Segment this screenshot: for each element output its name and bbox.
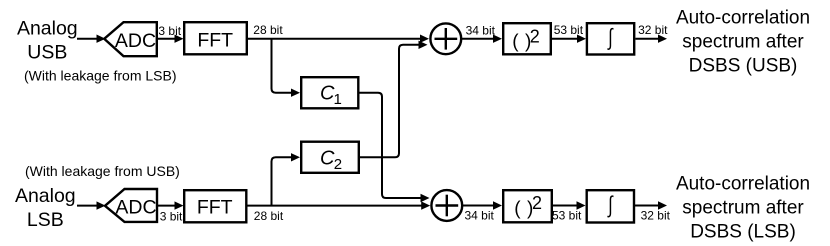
svg-text:FFT: FFT (197, 30, 233, 52)
svg-text:53 bit: 53 bit (552, 208, 582, 222)
wire: C2 output up to adder (USB) (360, 41, 428, 158)
svg-text:USB: USB (27, 41, 67, 63)
svg-text:2: 2 (532, 193, 542, 213)
integrator (LSB) (587, 190, 634, 222)
wire: Analog LSB to ADC (LSB) (77, 201, 106, 209)
integrator (USB) (587, 23, 634, 54)
svg-text:FFT: FFT (197, 197, 233, 219)
svg-text:spectrum after: spectrum after (682, 32, 804, 53)
svg-text:Analog: Analog (15, 185, 76, 207)
svg-text:(With leakage from USB): (With leakage from USB) (25, 163, 180, 179)
wire: squarer to integrator (USB) (552, 35, 586, 43)
svg-text:3 bit: 3 bit (158, 24, 181, 38)
svg-text:Analog: Analog (17, 17, 78, 39)
svg-text:(With leakage from LSB): (With leakage from LSB) (24, 68, 177, 84)
svg-text:Auto-correlation: Auto-correlation (676, 173, 810, 194)
svg-text:2: 2 (334, 156, 342, 173)
svg-text:32 bit: 32 bit (641, 208, 671, 222)
svg-text:32 bit: 32 bit (638, 23, 668, 37)
svg-text:(: ( (514, 198, 521, 219)
svg-text:ADC: ADC (115, 197, 156, 219)
wire: C1 output down to adder (LSB) (360, 93, 430, 203)
adder (LSB) (431, 190, 462, 221)
svg-text:DSBS (LSB): DSBS (LSB) (690, 221, 796, 242)
FFT (USB) (184, 22, 247, 54)
svg-text:DSBS (USB): DSBS (USB) (689, 56, 798, 77)
wire: integrator to output (USB) (635, 35, 667, 43)
svg-text:LSB: LSB (27, 209, 64, 231)
wire: FFT (USB) branch down to C1 (272, 39, 301, 97)
input label: Analog LSB (15, 185, 76, 231)
svg-text:spectrum after: spectrum after (682, 197, 804, 218)
output label: Auto-correlation spectrum after DSBS (LSB) (676, 173, 810, 242)
wire: FFT (LSB) branch up to C2 (272, 153, 301, 206)
FFT (LSB) (184, 190, 246, 222)
svg-text:28 bit: 28 bit (254, 209, 284, 223)
squarer (USB) (503, 23, 551, 54)
svg-text:3 bit: 3 bit (160, 209, 183, 223)
wire: Analog USB to ADC (USB) (77, 35, 106, 43)
svg-text:1: 1 (334, 91, 342, 108)
output label: Auto-correlation spectrum after DSBS (USB) (676, 8, 810, 77)
wire: adder to squarer (LSB) (463, 201, 502, 209)
svg-text:ADC: ADC (115, 30, 156, 52)
svg-text:Auto-correlation: Auto-correlation (676, 8, 810, 29)
ADC (LSB) (105, 189, 157, 222)
input label: Analog USB (17, 17, 78, 63)
svg-text:28 bit: 28 bit (253, 23, 283, 37)
C1 (301, 77, 358, 108)
wire: squarer to integrator (LSB) (553, 201, 586, 209)
adder (USB) (430, 23, 461, 54)
svg-text:C: C (320, 147, 335, 169)
svg-text:53 bit: 53 bit (554, 23, 584, 37)
wire: FFT (USB) to adder (USB) (248, 35, 430, 43)
C2 (301, 142, 359, 173)
svg-text:2: 2 (530, 26, 540, 46)
wire: ADC to FFT (USB) (158, 35, 184, 43)
svg-text:34 bit: 34 bit (466, 24, 496, 38)
wire: ADC to FFT (LSB) (158, 201, 184, 209)
svg-text:34 bit: 34 bit (465, 208, 495, 222)
wire: adder to squarer (USB) (462, 35, 502, 43)
squarer (LSB) (503, 190, 552, 222)
wire: integrator to output (LSB) (635, 201, 667, 209)
ADC (USB) (104, 22, 157, 56)
svg-text:(: ( (512, 32, 519, 53)
wire: FFT (LSB) to adder (LSB) (248, 201, 431, 209)
